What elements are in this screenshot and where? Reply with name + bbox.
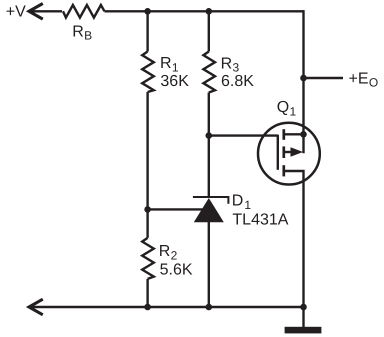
wire top rail (RB to top-right corner) and right rail upper: [105, 10, 304, 12]
transistor Q1 body lead: [284, 151, 292, 153]
junction bottom of D1 column: [206, 304, 213, 311]
wire gate (middle column to Q1 gate): [209, 134, 278, 136]
label Q1: [277, 99, 297, 118]
node +V label: [6, 3, 26, 20]
svg-text:D: D: [232, 193, 244, 210]
transistor Q1 body circle: [258, 123, 320, 185]
wire middle column upper (rail to R3): [208, 11, 210, 51]
diode D1 triangle (TL431A): [194, 198, 224, 222]
junction +EO tap: [300, 75, 307, 82]
label R3 6.8K: [221, 55, 255, 90]
svg-text:R: R: [221, 55, 233, 72]
resistor RB: [63, 5, 105, 18]
svg-text:+V: +V: [6, 3, 26, 20]
wire bottom rail: [29, 306, 304, 308]
node ref junction (R1/R2 divider): [144, 206, 151, 213]
svg-text:2: 2: [171, 249, 178, 263]
svg-text:6.8K: 6.8K: [221, 73, 254, 90]
resistor R2: [142, 238, 154, 279]
svg-text:1: 1: [290, 104, 297, 118]
svg-text:TL431A: TL431A: [232, 212, 288, 229]
junction Q1 drain dot: [300, 131, 307, 138]
wire middle column (R3 to D1 cathode): [208, 93, 210, 198]
svg-text:1: 1: [244, 198, 251, 212]
svg-text:R: R: [160, 55, 172, 72]
wire right rail (corner down into Q1 drain): [302, 10, 304, 153]
label D1 TL431A: [232, 193, 289, 229]
wire left column upper (rail to R1): [146, 11, 148, 51]
label RB: [72, 23, 92, 42]
label R1 36K: [160, 55, 189, 90]
junction gate tap on middle column: [206, 132, 213, 139]
wire left column lower (R2 to bottom rail): [146, 279, 148, 307]
resistor R3: [203, 52, 215, 93]
junction bottom of R2 column: [144, 304, 151, 311]
node +EO label: [349, 70, 379, 89]
wire middle column lower (D1 anode to bottom rail): [208, 222, 210, 308]
wire +EO tap: [304, 77, 344, 79]
transistor Q1 body arrow: [291, 147, 304, 156]
transistor Q1 source connection and right rail lower: [284, 171, 304, 307]
transistor Q1 channel segment top: [282, 129, 285, 140]
top rail left arrowhead: [29, 4, 43, 20]
transistor Q1 channel segment bottom: [282, 165, 285, 176]
junction top of R3 column: [206, 8, 213, 15]
svg-text:Q: Q: [277, 99, 289, 116]
svg-text:O: O: [369, 76, 378, 90]
diode D1 cathode bar: [193, 197, 229, 204]
junction bottom right (source to ground): [300, 304, 307, 311]
wire ground stub: [302, 307, 304, 327]
svg-text:+E: +E: [349, 70, 369, 87]
junction top of R1 column: [144, 8, 151, 15]
wire left column middle (R1 to ref node to R2): [146, 92, 148, 238]
resistor R1: [142, 52, 154, 93]
svg-text:B: B: [84, 29, 92, 43]
label R2 5.6K: [159, 243, 193, 278]
svg-text:R: R: [72, 23, 84, 40]
bottom rail left arrowhead: [29, 299, 43, 315]
transistor Q1 gate bar: [277, 135, 279, 170]
wire reference (divider to D1): [148, 208, 204, 210]
transistor Q1 drain connection line: [284, 133, 304, 135]
svg-text:R: R: [159, 243, 171, 260]
svg-text:36K: 36K: [160, 73, 189, 90]
wire top rail (arrow to RB): [29, 10, 62, 12]
ground symbol bar: [285, 327, 322, 334]
svg-text:5.6K: 5.6K: [160, 261, 193, 278]
transistor Q1 channel segment middle: [282, 146, 285, 158]
